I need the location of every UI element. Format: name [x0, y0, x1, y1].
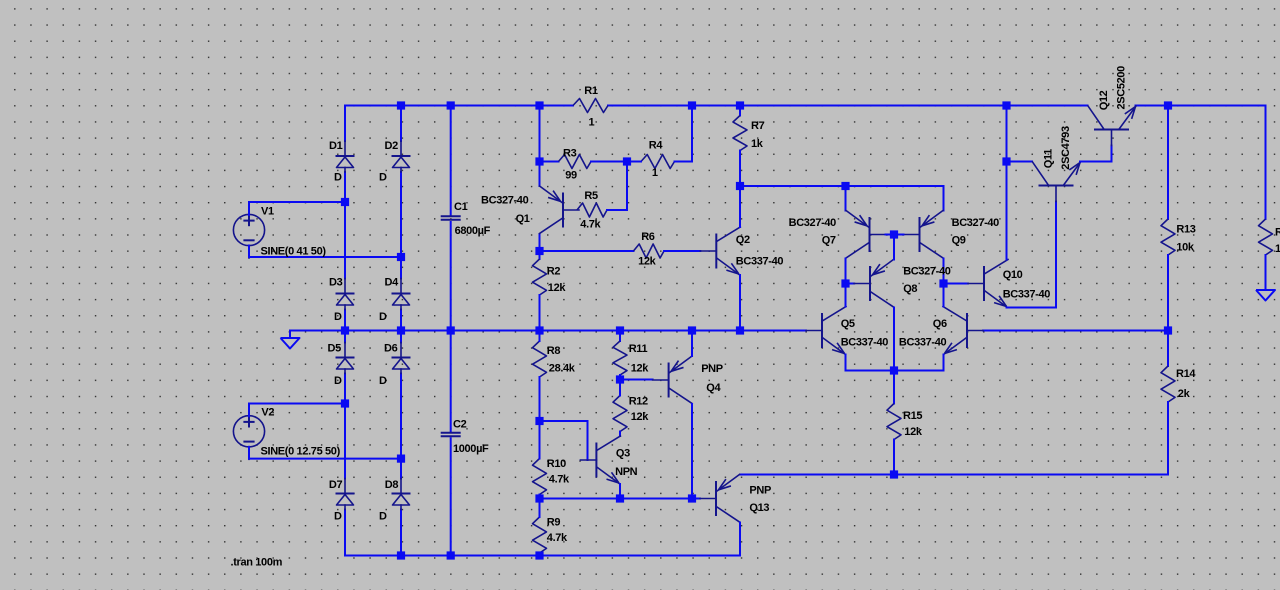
svg-text:R7: R7 — [751, 120, 765, 132]
svg-text:C1: C1 — [454, 201, 468, 213]
svg-text:R16: R16 — [1275, 226, 1280, 238]
svg-text:1000µF: 1000µF — [453, 443, 489, 455]
svg-text:6800µF: 6800µF — [455, 225, 491, 237]
svg-text:BC327-40: BC327-40 — [903, 266, 951, 278]
svg-text:D: D — [334, 510, 342, 522]
svg-text:12k: 12k — [631, 363, 650, 375]
svg-text:R11: R11 — [629, 343, 648, 355]
svg-text:R13: R13 — [1176, 224, 1195, 236]
svg-text:BC337-40: BC337-40 — [1003, 288, 1051, 300]
svg-text:Q11: Q11 — [1043, 149, 1055, 168]
svg-text:BC337-40: BC337-40 — [899, 337, 947, 349]
svg-text:1: 1 — [652, 167, 658, 179]
svg-text:12k: 12k — [548, 282, 567, 294]
svg-text:.tran 100m: .tran 100m — [231, 556, 283, 568]
svg-text:PNP: PNP — [701, 363, 723, 375]
svg-text:12k: 12k — [904, 426, 923, 438]
svg-text:C2: C2 — [453, 419, 467, 431]
svg-text:28.4k: 28.4k — [549, 363, 576, 375]
svg-text:D7: D7 — [329, 479, 343, 491]
svg-text:R5: R5 — [584, 190, 598, 202]
svg-text:R15: R15 — [903, 410, 922, 422]
svg-text:R9: R9 — [547, 517, 561, 529]
svg-text:4.7k: 4.7k — [580, 218, 601, 230]
svg-text:D1: D1 — [329, 140, 343, 152]
svg-text:4.7k: 4.7k — [547, 532, 568, 544]
svg-text:D4: D4 — [385, 277, 400, 289]
svg-text:4.7k: 4.7k — [549, 474, 570, 486]
svg-text:D: D — [334, 311, 342, 323]
svg-text:D5: D5 — [328, 343, 342, 355]
svg-text:PNP: PNP — [749, 485, 771, 497]
svg-text:D: D — [379, 510, 387, 522]
svg-text:Q4: Q4 — [706, 382, 721, 394]
svg-text:D6: D6 — [384, 343, 398, 355]
svg-text:BC337-40: BC337-40 — [841, 337, 889, 349]
svg-text:D3: D3 — [329, 277, 343, 289]
svg-text:V2: V2 — [261, 406, 274, 418]
svg-text:R1: R1 — [584, 85, 598, 97]
svg-text:R12: R12 — [629, 396, 648, 408]
svg-text:Q9: Q9 — [952, 235, 966, 247]
svg-text:99: 99 — [565, 170, 577, 182]
svg-text:Q6: Q6 — [933, 318, 947, 330]
svg-text:Q5: Q5 — [841, 318, 855, 330]
svg-text:R8: R8 — [547, 345, 561, 357]
svg-text:SINE(0 41 50): SINE(0 41 50) — [261, 245, 327, 257]
svg-text:Q2: Q2 — [736, 234, 750, 246]
svg-text:NPN: NPN — [615, 466, 638, 478]
svg-text:Q12: Q12 — [1098, 90, 1110, 110]
svg-text:R14: R14 — [1176, 368, 1196, 380]
svg-text:D: D — [379, 375, 387, 387]
svg-text:12k: 12k — [631, 411, 650, 423]
svg-text:D: D — [379, 311, 387, 323]
svg-text:Q7: Q7 — [822, 235, 836, 247]
svg-text:R2: R2 — [547, 266, 561, 278]
svg-text:2SC5200: 2SC5200 — [1116, 66, 1128, 110]
svg-text:V1: V1 — [261, 205, 274, 217]
svg-text:R10: R10 — [547, 458, 566, 470]
svg-text:D: D — [379, 172, 387, 184]
svg-text:R3: R3 — [563, 148, 577, 160]
svg-text:D2: D2 — [385, 140, 399, 152]
svg-text:Q10: Q10 — [1003, 269, 1023, 281]
svg-text:2k: 2k — [1178, 388, 1191, 400]
svg-text:D: D — [334, 375, 342, 387]
svg-text:10k: 10k — [1176, 241, 1195, 253]
svg-text:SINE(0 12.75 50): SINE(0 12.75 50) — [261, 445, 341, 457]
svg-text:R4: R4 — [649, 140, 664, 152]
svg-text:1k: 1k — [751, 138, 764, 150]
svg-text:D: D — [334, 172, 342, 184]
svg-text:Q13: Q13 — [749, 502, 769, 514]
svg-text:R6: R6 — [641, 231, 655, 243]
svg-text:BC327-40: BC327-40 — [789, 217, 837, 229]
svg-text:1: 1 — [589, 116, 595, 128]
svg-text:Q1: Q1 — [516, 213, 530, 225]
svg-text:BC337-40: BC337-40 — [736, 255, 784, 267]
svg-text:Q8: Q8 — [903, 283, 917, 295]
svg-text:2SC4793: 2SC4793 — [1060, 126, 1072, 170]
svg-text:12k: 12k — [638, 256, 657, 268]
svg-text:D8: D8 — [385, 479, 399, 491]
svg-text:Q3: Q3 — [616, 447, 630, 459]
svg-text:BC327-40: BC327-40 — [481, 194, 529, 206]
svg-text:BC327-40: BC327-40 — [952, 217, 1000, 229]
svg-text:1k: 1k — [1275, 243, 1280, 255]
